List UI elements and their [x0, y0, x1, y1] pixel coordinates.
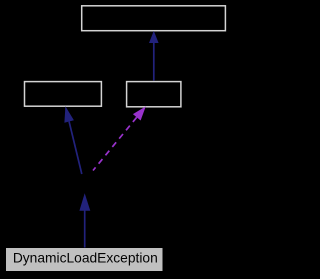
edge: dashed usage arrow hidden node to middle-right box: [93, 106, 146, 170]
node: middle-right parent-class box: [127, 82, 181, 107]
edge: inheritance arrow DynamicLoadException to hidden node: [79, 193, 90, 247]
svg-text:DynamicLoadException: DynamicLoadException: [13, 251, 158, 266]
edge: inheritance arrow middle-right box to top box: [149, 31, 159, 81]
node: DynamicLoadException current-class box: [6, 248, 163, 271]
edge: inheritance arrow hidden node to middle-left box: [64, 106, 81, 174]
node: top base-class box: [82, 6, 226, 31]
node: middle-left parent-class box: [25, 82, 102, 107]
